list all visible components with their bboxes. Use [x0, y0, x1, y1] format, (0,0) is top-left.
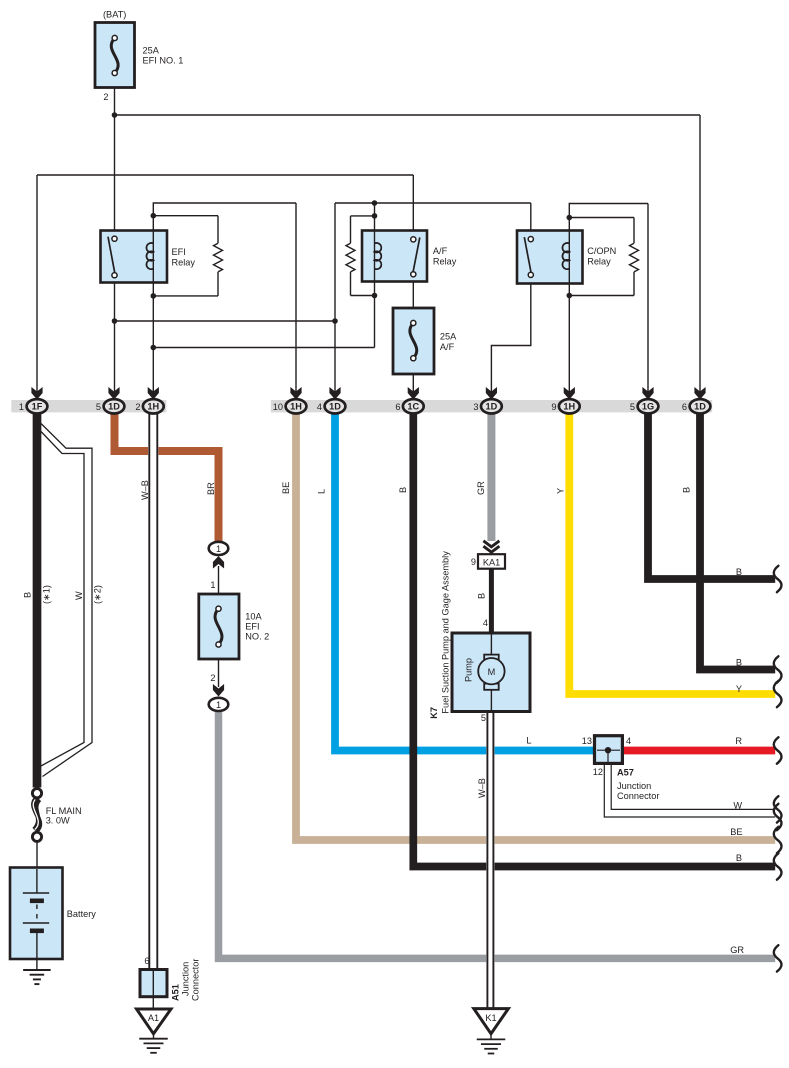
svg-text:BR: BR — [206, 482, 216, 495]
svg-text:L: L — [317, 489, 327, 494]
svg-text:W–B: W–B — [140, 480, 150, 500]
svg-text:1: 1 — [216, 700, 221, 710]
svg-text:Pump: Pump — [464, 658, 474, 682]
svg-text:K7: K7 — [429, 707, 439, 719]
svg-text:W: W — [74, 591, 84, 600]
svg-text:L: L — [526, 736, 531, 746]
svg-text:1H: 1H — [147, 402, 159, 412]
svg-text:R: R — [735, 736, 742, 746]
svg-text:5: 5 — [481, 713, 486, 723]
svg-text:25A: 25A — [440, 331, 457, 341]
svg-text:1D: 1D — [108, 402, 120, 412]
svg-text:B: B — [736, 853, 742, 863]
svg-text:1H: 1H — [563, 402, 575, 412]
svg-text:A51: A51 — [171, 984, 181, 1001]
svg-text:Junction: Junction — [181, 962, 191, 996]
svg-text:A57: A57 — [617, 768, 634, 778]
svg-text:3. 0W: 3. 0W — [46, 816, 70, 826]
svg-text:10: 10 — [273, 402, 283, 412]
svg-text:W–B: W–B — [477, 778, 487, 798]
svg-text:Connector: Connector — [617, 791, 659, 801]
svg-text:5: 5 — [96, 402, 101, 412]
svg-text:KA1: KA1 — [483, 557, 500, 567]
svg-text:3: 3 — [473, 402, 478, 412]
svg-text:1G: 1G — [642, 402, 654, 412]
svg-text:(BAT): (BAT) — [103, 10, 126, 20]
svg-text:B: B — [477, 593, 487, 599]
svg-text:EFI: EFI — [245, 621, 259, 631]
svg-text:4: 4 — [317, 402, 322, 412]
svg-text:(∗2): (∗2) — [93, 585, 103, 604]
svg-text:BE: BE — [281, 482, 291, 494]
svg-text:1D: 1D — [486, 402, 498, 412]
svg-text:A/F: A/F — [433, 246, 448, 256]
svg-text:Relay: Relay — [433, 257, 457, 267]
svg-text:1: 1 — [19, 402, 24, 412]
svg-text:B: B — [736, 567, 742, 577]
svg-text:9: 9 — [471, 557, 476, 567]
svg-text:BE: BE — [730, 827, 742, 837]
svg-text:13: 13 — [582, 736, 592, 746]
svg-text:4: 4 — [626, 736, 631, 746]
svg-text:C/OPN: C/OPN — [587, 246, 616, 256]
svg-text:FL MAIN: FL MAIN — [46, 806, 82, 816]
svg-text:EFI: EFI — [172, 247, 186, 257]
svg-text:1D: 1D — [694, 402, 706, 412]
svg-text:2: 2 — [135, 402, 140, 412]
svg-text:12: 12 — [593, 767, 603, 777]
svg-text:Connector: Connector — [191, 959, 201, 1001]
svg-text:B: B — [736, 658, 742, 668]
svg-text:Y: Y — [736, 684, 742, 694]
svg-text:NO. 2: NO. 2 — [245, 631, 269, 641]
svg-text:A/F: A/F — [440, 342, 455, 352]
svg-text:Relay: Relay — [587, 257, 611, 267]
svg-text:5: 5 — [630, 402, 635, 412]
svg-text:1: 1 — [216, 544, 221, 554]
svg-text:W: W — [733, 801, 742, 811]
svg-text:GR: GR — [476, 481, 486, 495]
svg-text:GR: GR — [730, 945, 744, 955]
svg-text:Y: Y — [556, 488, 566, 494]
svg-text:1D: 1D — [329, 402, 341, 412]
svg-text:B: B — [23, 592, 33, 598]
svg-text:1H: 1H — [290, 402, 302, 412]
svg-text:2: 2 — [103, 92, 108, 102]
svg-text:Junction: Junction — [617, 781, 651, 791]
svg-text:1: 1 — [210, 580, 215, 590]
svg-text:25A: 25A — [143, 46, 160, 56]
svg-text:M: M — [488, 667, 496, 677]
svg-text:1C: 1C — [407, 402, 419, 412]
svg-text:4: 4 — [483, 618, 488, 628]
svg-text:Relay: Relay — [172, 258, 196, 268]
svg-text:B: B — [682, 487, 692, 493]
svg-text:6: 6 — [682, 402, 687, 412]
svg-text:9: 9 — [551, 402, 556, 412]
svg-text:1F: 1F — [32, 402, 43, 412]
svg-text:B: B — [398, 487, 408, 493]
svg-text:A1: A1 — [148, 1013, 159, 1023]
svg-text:EFI NO. 1: EFI NO. 1 — [143, 56, 184, 66]
svg-text:6: 6 — [144, 956, 149, 966]
svg-text:10A: 10A — [245, 611, 262, 621]
svg-text:6: 6 — [395, 402, 400, 412]
svg-text:Battery: Battery — [67, 909, 97, 919]
svg-text:(∗1): (∗1) — [42, 585, 52, 604]
svg-text:2: 2 — [210, 673, 215, 683]
svg-text:Fuel Suction Pump and Gage Ass: Fuel Suction Pump and Gage Assembly — [441, 551, 451, 714]
svg-text:K1: K1 — [485, 1013, 496, 1023]
